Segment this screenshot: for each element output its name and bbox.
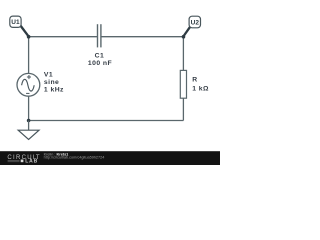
node U2 junction dot bbox=[182, 35, 186, 39]
ground junction dot bbox=[27, 119, 31, 123]
wire right rail lower (R bottom down to bottom wire) bbox=[182, 98, 184, 120]
svg-text:1 kHz: 1 kHz bbox=[44, 87, 64, 94]
wire left rail upper (node U1 down to V1 top) bbox=[28, 37, 30, 74]
node U1 junction dot bbox=[27, 35, 31, 39]
capacitor C1 left plate bbox=[97, 24, 99, 47]
capacitor C1 value labels bbox=[88, 52, 112, 67]
svg-text:R: R bbox=[192, 77, 197, 84]
node U2 label box bbox=[189, 16, 200, 28]
svg-text:sine: sine bbox=[44, 79, 59, 86]
svg-text:U2: U2 bbox=[191, 19, 200, 26]
V1 minus sign bbox=[26, 92, 29, 94]
V1 sine symbol bbox=[22, 79, 35, 91]
voltage source V1 circle bbox=[17, 73, 40, 96]
node U2 pointer bbox=[182, 24, 192, 37]
V1 labels bbox=[44, 72, 64, 94]
svg-text:U1: U1 bbox=[11, 19, 20, 26]
wire left rail lower (V1 bottom to ground node) bbox=[28, 96, 30, 120]
node U1 label box bbox=[10, 16, 21, 27]
footer logo square bbox=[21, 160, 24, 163]
resistor R labels bbox=[192, 77, 209, 93]
svg-text:1 kΩ: 1 kΩ bbox=[192, 85, 209, 92]
ground triangle bbox=[18, 130, 39, 139]
svg-text:C1: C1 bbox=[95, 52, 105, 59]
resistor R body bbox=[180, 70, 186, 98]
wire top-left horizontal (node U1 to C1 left plate) bbox=[29, 36, 97, 38]
node U1 pointer bbox=[19, 24, 30, 38]
capacitor C1 right plate bbox=[100, 24, 102, 47]
wire right rail upper (node U2 down to R top) bbox=[182, 37, 184, 71]
wire top-right horizontal (C1 right plate to node U2) bbox=[101, 36, 183, 38]
wire bottom horizontal (ground node to right rail) bbox=[29, 120, 184, 122]
svg-text:V1: V1 bbox=[44, 72, 53, 79]
svg-text:http://circuitlab.com/c4gitua5: http://circuitlab.com/c4gitua59h2724 bbox=[44, 156, 105, 160]
ground stem bbox=[28, 121, 30, 131]
footer logo waveform lines bbox=[8, 161, 20, 162]
svg-text:100 nF: 100 nF bbox=[88, 60, 112, 67]
V1 plus sign bbox=[27, 75, 31, 79]
svg-text:LAB: LAB bbox=[25, 159, 38, 165]
footer bar bbox=[0, 151, 220, 165]
